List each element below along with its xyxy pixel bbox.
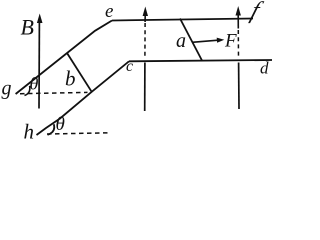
svg-text:B: B xyxy=(21,15,34,40)
svg-text:θ: θ xyxy=(30,74,39,94)
dashed horizontal reference line at g xyxy=(20,92,88,93)
force arrow F on rod a xyxy=(192,40,218,42)
svg-text:c: c xyxy=(126,58,133,75)
rod a (conducting bar on horizontal rails) xyxy=(180,19,202,61)
field arrow B (vertical, left, next to B label) xyxy=(38,21,40,109)
rod b (conducting bar on incline) xyxy=(67,53,92,92)
svg-text:f: f xyxy=(248,0,266,24)
svg-text:θ: θ xyxy=(56,114,65,135)
svg-text:F: F xyxy=(224,31,237,52)
horizontal rail c-d (bottom rail of horizontal plane) xyxy=(129,60,272,61)
svg-text:e: e xyxy=(105,1,113,22)
svg-text:g: g xyxy=(2,78,12,100)
field arrow (middle vertical, through e-f and c-d rails) xyxy=(143,7,148,17)
angle arc theta at h xyxy=(48,124,55,135)
svg-text:b: b xyxy=(65,67,76,91)
incline rail h-c (lower right rail of inclined plane) xyxy=(37,61,130,135)
svg-text:a: a xyxy=(176,30,186,52)
dashed horizontal reference line at h xyxy=(47,133,110,134)
incline rail g-e (upper left rail of inclined plane) xyxy=(16,21,112,95)
field arrow (right vertical, through e-f and c-d rails) xyxy=(236,6,241,16)
angle arc theta at g xyxy=(25,86,30,96)
svg-text:h: h xyxy=(24,120,35,144)
horizontal rail e-f (top rail of horizontal plane) xyxy=(112,19,253,21)
svg-text:d: d xyxy=(260,59,269,78)
